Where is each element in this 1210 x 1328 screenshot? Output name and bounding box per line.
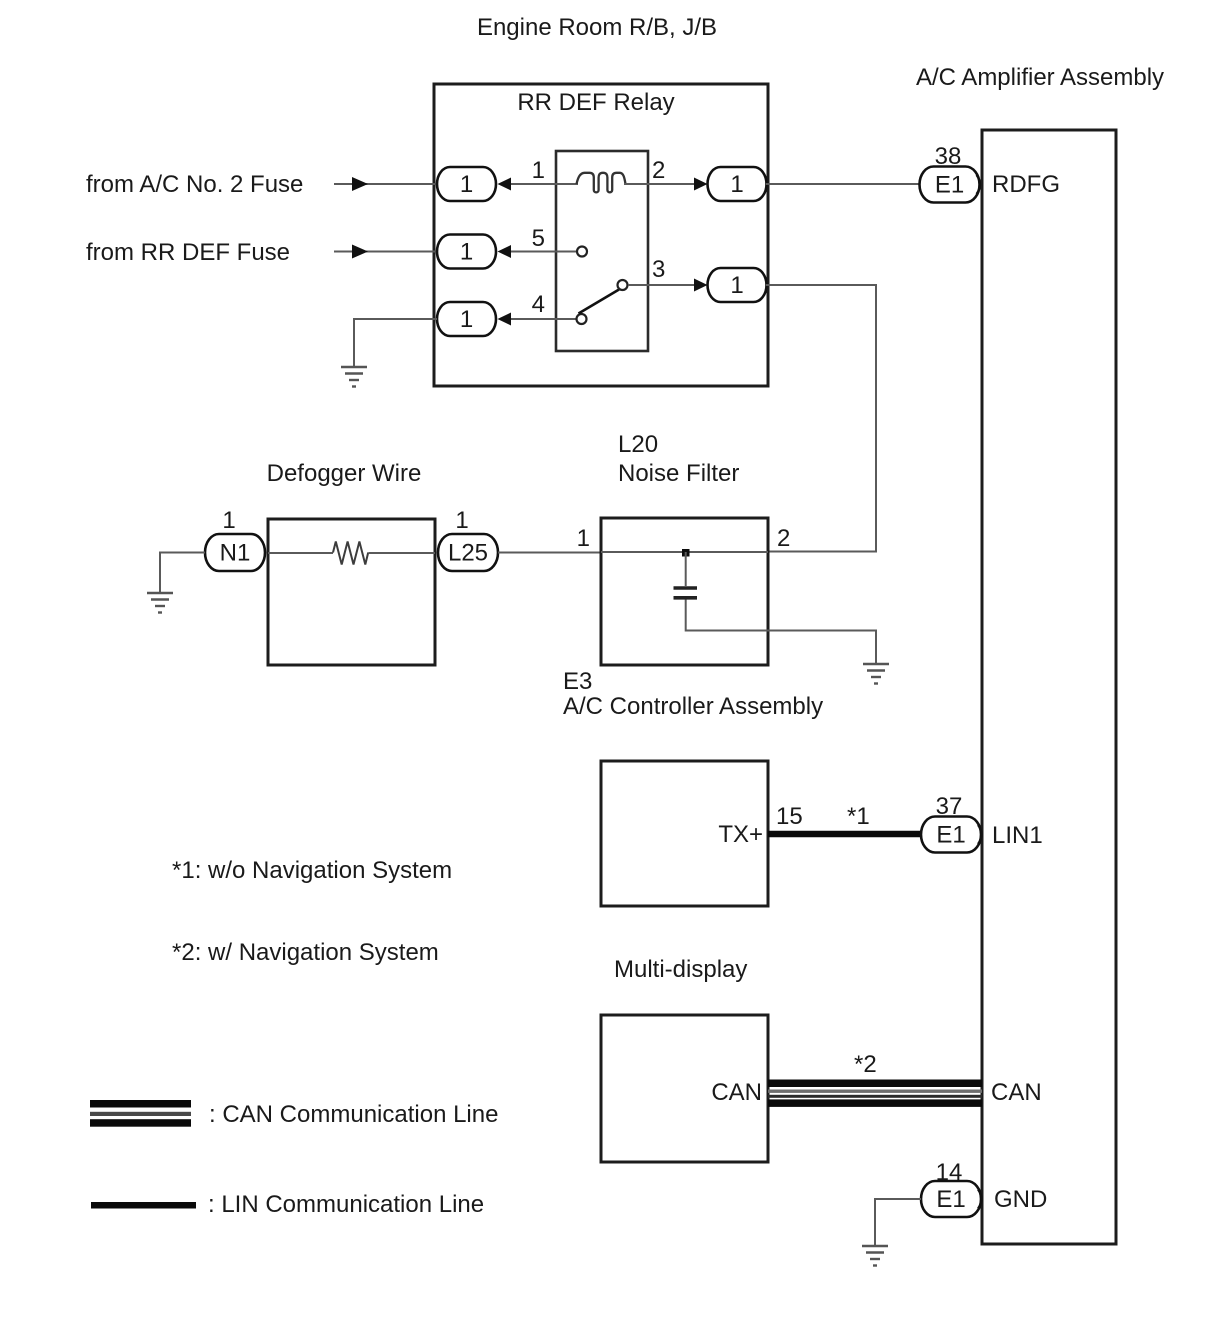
svg-text:*1: *1	[847, 803, 870, 830]
wire: capacitor to ground (exits box right)	[686, 600, 876, 664]
arrowhead into right pin-2 connector	[694, 178, 708, 191]
svg-text:CAN: CAN	[991, 1079, 1042, 1106]
svg-text:1: 1	[532, 157, 545, 184]
wire: pin-1 connector to coil	[511, 183, 578, 185]
connector notch arc E1-14	[978, 1190, 982, 1209]
connector E1 pin 37	[921, 817, 981, 853]
svg-text:CAN: CAN	[711, 1079, 762, 1106]
connector 1 (ground side, pin 4 row)	[437, 302, 496, 336]
wire: CAN bus line 4 (thick bottom)	[768, 1099, 982, 1107]
switch contact circle pin 4	[577, 314, 587, 324]
wire: LIN communication line TX+ to E1-37 (thick)	[768, 831, 921, 838]
legend symbol: LIN line sample	[91, 1202, 196, 1209]
wire: CAN bus line 2 (thin gray)	[768, 1090, 982, 1093]
relay block box (Engine Room R/B, J/B)	[434, 84, 768, 386]
noise filter L20 box	[601, 518, 768, 665]
wire: junction down to capacitor	[685, 552, 687, 586]
arrowhead into right pin-3 connector	[694, 279, 708, 292]
coil of RR DEF relay	[577, 173, 626, 193]
arrowhead into pin-1 connector	[498, 178, 512, 191]
svg-text:from RR DEF Fuse: from RR DEF Fuse	[86, 239, 290, 266]
wire: pin-4 connector to switch blade contact	[511, 318, 576, 320]
wire: CAN bus line 1 (thick top)	[768, 1080, 982, 1088]
svg-text:1: 1	[577, 525, 590, 552]
svg-text:1: 1	[460, 306, 473, 333]
svg-text:A/C Controller Assembly: A/C Controller Assembly	[563, 693, 823, 720]
svg-text:4: 4	[532, 291, 545, 318]
wire: switch pin 3 to output connector	[628, 284, 694, 286]
relay K1 inner body box	[556, 151, 648, 351]
arrowhead on A/C No.2 fuse wire	[352, 177, 368, 191]
arrowhead into pin-5 connector	[498, 245, 512, 258]
connector L25	[438, 534, 498, 571]
A/C controller assembly box	[601, 761, 768, 906]
ground (noise filter capacitor)	[863, 664, 889, 684]
svg-text:*1: w/o Navigation System: *1: w/o Navigation System	[172, 857, 452, 884]
wire: CAN bus line 3 (thin dark)	[768, 1095, 982, 1098]
svg-text:1: 1	[460, 171, 473, 198]
wire: pin-5 connector to switch contact	[511, 251, 577, 253]
svg-text:15: 15	[776, 803, 803, 830]
svg-text:E3: E3	[563, 668, 592, 695]
arrowhead on RR DEF fuse wire	[352, 245, 368, 259]
connector 1 (RR DEF fuse, pin 5 row)	[437, 235, 496, 269]
A/C amplifier assembly box	[982, 130, 1116, 1244]
legend symbol: CAN line sample (bottom thick)	[90, 1119, 191, 1127]
svg-text:1: 1	[730, 272, 743, 299]
svg-text:*2: w/ Navigation System: *2: w/ Navigation System	[172, 939, 439, 966]
wire: relay pin 3 down to noise filter pin 2	[766, 285, 876, 552]
arrowhead into pin-4 connector	[498, 313, 512, 326]
svg-text:A/C Amplifier Assembly: A/C Amplifier Assembly	[916, 64, 1164, 91]
svg-text:GND: GND	[994, 1186, 1047, 1213]
connector N1	[205, 534, 265, 571]
legend symbol: CAN line sample (middle)	[90, 1112, 191, 1116]
wire: noise filter through line	[601, 551, 768, 553]
connector E1 pin 38	[920, 167, 980, 203]
svg-text:E1: E1	[936, 822, 965, 849]
wire: A/C No.2 fuse feed to relay connector	[334, 183, 437, 185]
svg-text:2: 2	[777, 525, 790, 552]
svg-text:: LIN Communication Line: : LIN Communication Line	[208, 1191, 484, 1218]
defogger wire box	[268, 519, 435, 665]
switch blade (pin 4 to pin 3)	[579, 290, 620, 314]
connector 1 (relay coil supply, pin 1 row)	[437, 167, 496, 201]
resistor (defogger heating element)	[333, 542, 368, 565]
wire: N1 to ground	[160, 553, 205, 593]
svg-text:3: 3	[652, 256, 665, 283]
connector notch arc E1-37	[978, 825, 982, 844]
switch contact circle pin 5	[577, 247, 587, 257]
multi-display box	[601, 1015, 768, 1162]
ground (defogger N1)	[147, 593, 173, 613]
svg-text:1: 1	[730, 171, 743, 198]
svg-text:2: 2	[652, 157, 665, 184]
svg-text:Multi-display: Multi-display	[614, 956, 747, 983]
wire: coil to pin-2 connector	[624, 183, 694, 185]
wire: RR DEF fuse feed to relay connector	[334, 251, 437, 253]
wire: defogger element right segment	[369, 552, 436, 554]
capacitor C (noise filter) top plate	[674, 586, 698, 590]
svg-text:5: 5	[532, 225, 545, 252]
svg-text:Engine Room R/B, J/B: Engine Room R/B, J/B	[477, 14, 717, 41]
connector E1 pin 14	[921, 1181, 981, 1217]
connector notch arc E1-38	[977, 175, 981, 194]
legend symbol: CAN line sample (top thick)	[90, 1100, 191, 1108]
svg-text:TX+: TX+	[718, 821, 763, 848]
svg-text:1: 1	[222, 507, 235, 534]
svg-text:L25: L25	[448, 540, 488, 567]
svg-text:LIN1: LIN1	[992, 822, 1043, 849]
ground (amplifier E1-14)	[862, 1246, 888, 1266]
svg-text:E1: E1	[936, 1186, 965, 1213]
svg-text:RR DEF Relay: RR DEF Relay	[517, 89, 674, 116]
svg-text:1: 1	[455, 507, 468, 534]
capacitor C (noise filter) bottom plate	[674, 596, 698, 600]
svg-text:Noise Filter: Noise Filter	[618, 460, 739, 487]
svg-text:RDFG: RDFG	[992, 171, 1060, 198]
svg-text:1: 1	[460, 239, 473, 266]
wire: E1-14 to ground	[875, 1199, 921, 1245]
svg-text:L20: L20	[618, 431, 658, 458]
connector 1 (relay pin 2 output)	[708, 167, 767, 201]
svg-text:N1: N1	[220, 540, 251, 567]
svg-text:from A/C No. 2 Fuse: from A/C No. 2 Fuse	[86, 171, 303, 198]
ground (relay pin 4)	[341, 367, 367, 387]
svg-text:: CAN Communication Line: : CAN Communication Line	[209, 1101, 498, 1128]
junction dot (capacitor tap)	[682, 549, 690, 557]
svg-text:*2: *2	[854, 1051, 877, 1078]
wire: defogger element left segment	[268, 552, 333, 554]
svg-text:Defogger Wire: Defogger Wire	[267, 460, 422, 487]
switch contact circle pin 3	[618, 280, 628, 290]
wire: L25 to noise filter pin 1	[498, 552, 602, 554]
svg-text:E1: E1	[935, 172, 964, 199]
connector 1 (relay pin 3 output)	[708, 268, 767, 302]
wire: relay pin 2 to amplifier RDFG	[766, 183, 920, 185]
wire: pin-4 connector to ground drop	[354, 319, 437, 366]
